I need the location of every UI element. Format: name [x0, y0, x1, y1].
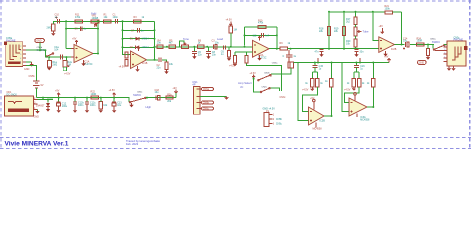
svg-text:1M: 1M	[234, 29, 237, 32]
resistor R1	[103, 14, 111, 23]
wire stage1 output	[93, 53, 98, 55]
node fb C7 left	[122, 29, 124, 31]
node out3 jn	[290, 48, 292, 50]
svg-text:3: 3	[20, 50, 21, 52]
node stage2 out	[154, 59, 156, 61]
capacitor C6	[221, 46, 226, 56]
svg-text:+4.5V: +4.5V	[64, 72, 71, 75]
node rail jn4	[86, 97, 88, 99]
resistor stack col3 upper	[346, 17, 357, 25]
wire block2 right vertical with resistor	[367, 63, 373, 108]
wire fb3 left vertical	[244, 27, 246, 46]
svg-text:3: 3	[444, 49, 445, 51]
resistor bias stage2 upper	[125, 52, 128, 58]
svg-text:22n: 22n	[198, 53, 203, 56]
resistor block1 fb	[325, 79, 333, 87]
gnd op-amp1	[81, 60, 85, 66]
capacitor C18	[155, 89, 161, 100]
svg-text:100n: 100n	[113, 16, 119, 19]
svg-text:112: 112	[253, 34, 257, 37]
capacitor C1	[113, 14, 119, 24]
supply circle block1 opamp	[310, 97, 315, 110]
wire block1 left vertical	[298, 63, 309, 121]
svg-text:GND: GND	[24, 68, 30, 71]
svg-text:+9V: +9V	[72, 38, 77, 41]
supply arrow op-amp2	[137, 47, 140, 51]
wire top chain	[53, 20, 155, 22]
resistor R6	[198, 39, 204, 48]
svg-text:JC: JC	[240, 85, 243, 89]
svg-text:100n: 100n	[90, 104, 96, 107]
supply +4.5V block1	[302, 87, 314, 92]
capacitor C2	[157, 58, 162, 70]
node out jn	[427, 44, 429, 46]
capacitor tone shunt 2	[206, 47, 216, 59]
capacitor tone shunt 1	[192, 47, 202, 59]
node stage3 out	[276, 48, 278, 50]
node stack col1 bottom	[328, 48, 330, 50]
node stack col1 top	[328, 11, 330, 13]
svg-text:Vivie MINERVA Ver.1: Vivie MINERVA Ver.1	[5, 140, 69, 147]
svg-text:33n: 33n	[360, 51, 365, 54]
potentiometer Tube	[354, 25, 369, 39]
wire pot wiper hook	[180, 41, 185, 47]
op-amp IC3B	[309, 107, 326, 131]
node C9 row right	[97, 28, 99, 30]
capacitor C3 electrolytic	[212, 37, 224, 49]
svg-text:1S: 1S	[266, 110, 269, 113]
node fb3 C11 left	[244, 34, 246, 36]
svg-text:2M2: 2M2	[52, 64, 57, 67]
wire stack col1	[328, 12, 330, 49]
node chain from fb	[154, 46, 156, 48]
gnd op-amp2	[135, 66, 139, 72]
wire stage3 to tonestack	[287, 48, 378, 50]
node tone jn1	[166, 46, 168, 48]
supply stem block2	[359, 58, 361, 64]
svg-text:Lead: Lead	[217, 37, 223, 41]
potentiometer Gain	[91, 11, 99, 26]
label C4a	[54, 46, 59, 52]
capacitor C16	[354, 63, 365, 79]
node rail jn3	[74, 97, 76, 99]
node tone jn3	[206, 46, 208, 48]
svg-text:1: 1	[444, 56, 445, 58]
jack CN3a	[272, 62, 298, 68]
potentiometer Tone	[182, 37, 190, 48]
wire jack to switch	[26, 49, 45, 51]
supply +4.5V rail	[109, 89, 116, 97]
wire CN3a to switch	[271, 68, 291, 74]
svg-text:100kB: 100kB	[92, 17, 99, 20]
capacitor C14	[403, 37, 409, 49]
svg-text:+9V: +9V	[310, 97, 315, 100]
diode D2	[130, 45, 150, 49]
resistor block1 A	[305, 79, 314, 87]
gnd op-amp3	[257, 55, 261, 61]
op-amp IC2A	[253, 40, 270, 59]
supply +4.5V select	[249, 72, 256, 77]
node stack col3 top	[355, 11, 357, 13]
resistor out pulldown	[426, 45, 430, 60]
resistor R5	[169, 39, 176, 48]
node fb D2 left	[122, 46, 124, 48]
svg-text:CN5b: CN5b	[276, 118, 283, 121]
wire out chain	[410, 44, 434, 46]
capacitor stack left	[315, 49, 330, 57]
node block2 rail jn	[372, 62, 374, 64]
supply stem block1	[317, 58, 319, 64]
svg-text:GND: GND	[34, 116, 40, 119]
resistor R3b	[166, 93, 173, 103]
wire power rail	[36, 97, 118, 99]
wire fb3 top row	[245, 26, 277, 28]
wire select bus	[254, 78, 260, 92]
svg-text:SWDC: SWDC	[432, 40, 440, 44]
resistor R10	[258, 19, 266, 28]
wire stage1 inv vertical	[65, 21, 67, 48]
capacitor select coupling	[283, 50, 297, 62]
resistor stack col2	[334, 27, 346, 36]
node jack out	[44, 49, 46, 51]
capacitor C9	[75, 26, 87, 30]
svg-text:10u: 10u	[155, 91, 160, 94]
node block1 cap top	[314, 62, 316, 64]
node stack col3 bottom	[355, 48, 357, 50]
resistor R input pulldown	[47, 57, 58, 70]
wire fb3 C11 row	[245, 34, 277, 36]
svg-text:CN3a: CN3a	[272, 63, 278, 65]
supply arrow op-amp1 +9V	[72, 38, 78, 45]
switch CN4b	[37, 47, 54, 57]
resistor R24	[417, 37, 425, 46]
node rail jn1	[42, 97, 44, 99]
wire stage4 output	[394, 44, 404, 46]
op-amp IC1A	[71, 45, 96, 67]
node fb C7 right	[154, 29, 156, 31]
wire fb row C7	[123, 29, 155, 31]
capacitor C4a	[60, 55, 62, 60]
op-amp IC2B	[379, 37, 397, 53]
svg-text:CN5b: CN5b	[29, 75, 36, 78]
node rail ext jn	[146, 97, 148, 99]
wire from R8 to select	[247, 64, 282, 91]
resistor shunt bias chain	[227, 47, 231, 61]
svg-text:PHONE: PHONE	[454, 38, 464, 42]
switch CN2b	[258, 73, 271, 81]
svg-text:5: 5	[444, 53, 445, 55]
op-amp IC1B	[131, 51, 148, 69]
wire rail extension	[119, 98, 129, 102]
node chain jn2	[97, 20, 99, 22]
svg-text:PHONE: PHONE	[6, 38, 16, 42]
connector CN5	[263, 107, 283, 126]
svg-text:10u: 10u	[403, 40, 408, 43]
resistor stack col1	[319, 27, 331, 36]
svg-text:100u: 100u	[62, 105, 68, 108]
svg-text:MC4558: MC4558	[360, 118, 370, 121]
node select jn	[253, 78, 255, 80]
resistor block2 A	[347, 79, 356, 87]
node block1 out	[331, 115, 333, 117]
svg-text:R3b: R3b	[167, 93, 172, 96]
net label CN6c	[202, 107, 214, 111]
svg-text:4n7: 4n7	[265, 34, 270, 37]
svg-text:CN2c: CN2c	[262, 87, 268, 89]
resistor bias stage2 lower	[119, 60, 129, 69]
svg-text:IC2B: IC2B	[391, 48, 397, 51]
node C9 row left	[65, 28, 67, 30]
switch CN2c	[260, 87, 270, 93]
node stack col2 bottom	[343, 48, 345, 50]
wire stage3 output	[269, 48, 280, 50]
svg-text:+9V: +9V	[172, 87, 177, 90]
gnd jack J1 sleeve	[24, 62, 34, 71]
svg-text:2M2: 2M2	[47, 27, 52, 30]
svg-text:+4.5V: +4.5V	[226, 19, 233, 22]
battery CN5b	[26, 65, 44, 97]
svg-text:C: C	[283, 55, 285, 58]
switch CN4a	[430, 38, 445, 50]
svg-text:2: 2	[444, 46, 445, 48]
svg-text:MC4558: MC4558	[313, 128, 323, 131]
svg-text:2: 2	[20, 46, 21, 48]
svg-text:10u: 10u	[215, 42, 220, 45]
svg-text:+4.5V: +4.5V	[344, 89, 351, 92]
node jn input B	[65, 56, 67, 58]
DC jack OK1	[5, 91, 38, 116]
gnd jack J2	[447, 66, 456, 71]
svg-text:470k: 470k	[258, 22, 264, 25]
wire stage1 inv jog	[66, 47, 74, 49]
supply +9V rail end	[172, 87, 177, 97]
connector CN1	[192, 80, 201, 114]
svg-text:100k: 100k	[385, 8, 391, 11]
wire stage4 fb vertical	[401, 12, 403, 45]
net label CN6b	[202, 101, 214, 105]
wire sw2 out	[270, 88, 279, 91]
output jack J2	[444, 36, 468, 66]
node stage4 out	[401, 44, 403, 46]
svg-text:+4.5V: +4.5V	[119, 66, 126, 69]
capacitor C10	[55, 14, 60, 24]
resistor bias3 top	[229, 26, 237, 48]
gnd OK1 pin1	[34, 110, 40, 119]
capacitor C 100n b	[85, 98, 97, 113]
node jn input A	[48, 56, 50, 58]
wire OK1 riser	[42, 98, 44, 100]
net label GND oval	[418, 60, 427, 64]
gnd switch CN4c	[129, 103, 133, 107]
input jack J1	[4, 37, 26, 66]
svg-text:+4.5V: +4.5V	[302, 89, 309, 92]
wire switch to stage1 input	[45, 50, 74, 57]
svg-text:104: 104	[54, 49, 59, 52]
supply +4.5V stage3	[226, 19, 233, 26]
supply arrow op-amp3	[258, 36, 261, 40]
svg-text:GND: GND	[419, 62, 425, 65]
svg-text:100n: 100n	[78, 104, 84, 107]
wire stage2 inv vertical	[123, 21, 131, 54]
capacitor stack right	[354, 49, 364, 57]
node chain jn1	[65, 20, 67, 22]
node tone jn2	[193, 46, 195, 48]
wire block1 right vertical with resistor	[324, 63, 332, 117]
svg-text:CN5c: CN5c	[276, 123, 283, 126]
svg-text:Feb. 2023: Feb. 2023	[126, 142, 139, 146]
node stage1 out	[97, 53, 99, 55]
svg-text:100R: 100R	[91, 93, 97, 96]
svg-text:+4.5V: +4.5V	[109, 89, 116, 92]
wire fb row D2	[123, 46, 155, 48]
svg-text:SWDC: SWDC	[133, 93, 141, 97]
resistor block2 fb	[367, 79, 375, 87]
resistor block1 B	[316, 79, 324, 87]
node rail jn6	[113, 97, 115, 99]
node block2 out	[372, 106, 374, 108]
svg-text:47n: 47n	[315, 51, 320, 54]
resistor bias to +4.5V	[63, 57, 73, 75]
svg-text:4P: 4P	[192, 82, 195, 86]
resistor R11	[75, 14, 83, 23]
node block1 rail jn	[331, 62, 333, 64]
wire tone chain	[155, 46, 253, 48]
wire block2 left vertical	[342, 63, 349, 112]
svg-text:+9V: +9V	[55, 90, 60, 93]
svg-text:GND: GND	[36, 40, 42, 43]
resistor stack col3 lower	[346, 39, 357, 49]
svg-text:1N4007: 1N4007	[36, 105, 45, 108]
svg-text:5: 5	[20, 54, 21, 56]
resistor block2 B	[357, 79, 365, 87]
node rail jn2	[58, 97, 60, 99]
svg-text:1: 1	[20, 62, 21, 64]
capacitor C13 100n	[73, 98, 85, 113]
svg-text:4: 4	[20, 58, 21, 60]
wire C9 row	[66, 28, 98, 30]
supply arrow op-amp4 +9V	[379, 25, 384, 33]
node fb3 C11 right	[276, 34, 278, 36]
node rail jn5	[100, 97, 102, 99]
svg-text:CN6c: CN6c	[203, 108, 210, 111]
wire switch to jack J2	[444, 45, 447, 51]
svg-text:2k2: 2k2	[346, 21, 351, 24]
svg-text:CN6a: CN6a	[203, 88, 210, 91]
wire fb row D1	[123, 38, 155, 40]
op-amp IC3A	[349, 98, 370, 121]
net label CN6a	[202, 87, 214, 91]
capacitor C12 100u	[57, 98, 68, 113]
supply circle block2 opamp	[354, 93, 357, 101]
svg-text:IC3B: IC3B	[320, 119, 326, 122]
svg-text:4k7: 4k7	[169, 42, 174, 45]
supply +9V rail	[55, 90, 60, 98]
wire stack col3	[355, 12, 357, 17]
svg-text:IC1B: IC1B	[142, 62, 148, 65]
diode D4 1N4007	[36, 100, 50, 112]
svg-text:CN6b: CN6b	[203, 102, 210, 105]
svg-text:1N914: 1N914	[142, 38, 150, 41]
wire C2 to load	[162, 60, 167, 62]
svg-text:100R: 100R	[417, 40, 423, 43]
node fb3 in	[244, 46, 246, 48]
supply +9V bias rail end	[384, 56, 391, 63]
gnd op-amp4	[383, 51, 387, 57]
resistor R21 feedback	[385, 5, 402, 14]
resistor R4	[157, 39, 163, 48]
node chain jn3	[122, 20, 124, 22]
svg-text:High: High	[146, 105, 152, 109]
wire block1 resB to inv	[303, 87, 318, 111]
wire CN1 pin gnd	[200, 96, 227, 98]
supply +4.5V block2	[344, 87, 355, 92]
wire block1 top rail	[298, 62, 389, 64]
wire block2 resB to inv	[345, 87, 360, 102]
gnd CN1	[225, 97, 229, 99]
resistor R3	[134, 16, 145, 23]
frame border	[0, 0, 471, 150]
resistor divider low	[99, 98, 108, 113]
svg-text:DC-JACK: DC-JACK	[7, 94, 18, 97]
capacitor C11	[253, 33, 270, 37]
svg-text:+4.5V: +4.5V	[249, 72, 256, 75]
svg-text:Tube: Tube	[363, 30, 370, 34]
svg-text:1N914: 1N914	[142, 46, 150, 49]
wire stack col2	[343, 12, 345, 49]
svg-text:9V: 9V	[41, 84, 44, 87]
wire fb3 right vertical	[276, 27, 278, 49]
node fb D1 right	[154, 38, 156, 40]
node fb D1 left	[122, 38, 124, 40]
diode D1	[130, 37, 150, 41]
svg-text:Tone: Tone	[183, 37, 189, 41]
svg-text:CN3c: CN3c	[280, 96, 287, 99]
wire rail B	[146, 97, 176, 99]
wire stage1 out vertical	[97, 21, 99, 53]
capacitor C7	[131, 28, 144, 32]
wire stage2 fb vertical right	[154, 21, 156, 60]
svg-text:Amp Select: Amp Select	[238, 81, 252, 85]
svg-text:470k: 470k	[75, 16, 81, 19]
wire tonestack top rail	[329, 11, 385, 13]
svg-text:22n: 22n	[157, 66, 162, 69]
capacitor C15	[312, 63, 323, 79]
svg-text:CN4a: CN4a	[430, 38, 436, 40]
svg-text:10u: 10u	[117, 104, 122, 107]
resistor R22	[91, 91, 99, 100]
resistor load vertical	[164, 62, 173, 74]
net label GND oval input	[35, 39, 45, 52]
resistor bias3 R8	[229, 52, 253, 68]
svg-text:+9V: +9V	[379, 25, 384, 28]
capacitor C bias 10u	[112, 98, 122, 113]
resistor R9	[280, 42, 291, 50]
switch CN4c	[129, 91, 146, 103]
svg-text:10n: 10n	[212, 53, 217, 56]
node DC	[47, 99, 49, 101]
svg-text:+9V: +9V	[384, 56, 389, 59]
wire stage2 output	[147, 59, 158, 61]
resistor R vertical at chain start	[47, 21, 56, 36]
node stack col2 top	[343, 11, 345, 13]
node block2 cap top	[355, 62, 357, 64]
resistor bias3 R7	[233, 52, 236, 63]
wire stage4 inv input	[373, 12, 379, 41]
wire OK1 to DC node	[38, 99, 54, 101]
node stage4 inv top	[372, 11, 374, 13]
